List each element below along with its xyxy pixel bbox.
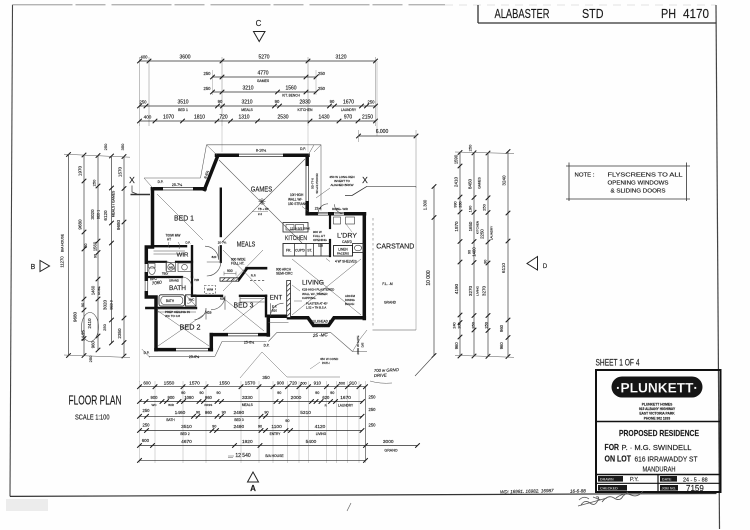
svg-text:EAST VICTORIA PARK: EAST VICTORIA PARK — [639, 412, 675, 416]
diagonal BED1 — [157, 194, 203, 240]
svg-text:C: C — [256, 19, 262, 28]
svg-text:SD+FLYDOOR: SD+FLYDOOR — [315, 173, 319, 194]
svg-text:3240: 3240 — [502, 175, 507, 186]
svg-text:L'DRY: L'DRY — [337, 232, 357, 239]
svg-text:3120: 3120 — [335, 55, 346, 61]
arrow A bottom — [248, 472, 259, 482]
svg-text:25-6¼: 25-6¼ — [189, 355, 200, 359]
bathtub — [159, 295, 185, 306]
diagonals BED2 — [158, 311, 209, 346]
svg-text:SCALE 1:100: SCALE 1:100 — [75, 413, 110, 422]
svg-text:5400: 5400 — [306, 439, 317, 445]
BED2 robe — [157, 309, 196, 312]
door arc passage/meals — [207, 262, 221, 276]
svg-text:FLOOR PLAN: FLOOR PLAN — [69, 394, 122, 408]
bottom dim row 2 — [140, 401, 363, 403]
right dim chains — [459, 153, 461, 357]
svg-text:1.300: 1.300 — [423, 199, 428, 210]
svg-text:BULKH: BULKH — [345, 302, 354, 306]
svg-text:LIVING: LIVING — [316, 432, 327, 436]
exterior wall: BED2 bottom — [156, 348, 211, 352]
svg-text:250: 250 — [143, 408, 151, 413]
svg-text:LIVING: LIVING — [476, 285, 480, 296]
svg-text:90: 90 — [330, 391, 334, 395]
svg-text:3210: 3210 — [242, 86, 253, 92]
svg-text:D.P.: D.P. — [144, 351, 150, 355]
interior wall BATH top — [146, 276, 182, 278]
svg-text:250: 250 — [88, 355, 93, 362]
svg-text:4770: 4770 — [257, 71, 268, 77]
svg-text:B/A HOUSE: B/A HOUSE — [265, 454, 284, 458]
svg-text:ALABASTER: ALABASTER — [495, 6, 550, 21]
svg-text:BULKHEAD 8′: BULKHEAD 8′ — [311, 320, 332, 324]
NB cupboard circle — [167, 263, 176, 272]
diagonals MEALS lower — [223, 250, 263, 291]
svg-text:FLYSCREENS TO ALL: FLYSCREENS TO ALL — [608, 173, 683, 179]
svg-text:1870: 1870 — [454, 221, 459, 232]
svg-text:350: 350 — [262, 375, 270, 380]
eaves outline top — [144, 145, 321, 211]
interior wall WIR right — [191, 246, 193, 277]
svg-text:GAMES: GAMES — [257, 79, 270, 83]
svg-text:BED 3: BED 3 — [234, 418, 243, 422]
door arc BATH — [182, 277, 192, 287]
svg-text:HT: HT — [167, 238, 171, 242]
svg-text:250: 250 — [482, 203, 487, 210]
svg-text:1070: 1070 — [163, 115, 174, 121]
svg-text:2000 W GATE: 2000 W GATE — [356, 335, 360, 354]
window BED2 bottom — [176, 348, 208, 352]
6.000 dim top right — [359, 135, 417, 137]
svg-text:ST.: ST. — [307, 249, 312, 253]
entry porch walls — [268, 316, 288, 335]
svg-text:90: 90 — [83, 243, 88, 248]
svg-text:KITCHEN: KITCHEN — [298, 108, 313, 112]
top dim row 1 — [140, 60, 376, 62]
svg-text:250: 250 — [369, 394, 377, 399]
svg-text:3210: 3210 — [241, 100, 252, 106]
svg-text:PASS: PASS — [205, 403, 213, 407]
exterior wall: left side — [146, 189, 156, 350]
svg-text:1550: 1550 — [219, 380, 230, 386]
svg-text:MEALS: MEALS — [242, 403, 253, 407]
svg-text:90: 90 — [218, 99, 223, 104]
svg-text:A: A — [250, 484, 256, 493]
svg-text:820: 820 — [212, 255, 217, 259]
kitchen bench top (sink) — [283, 223, 308, 233]
svg-text:90: 90 — [216, 391, 220, 395]
svg-text:5D-77-6: 5D-77-6 — [311, 178, 315, 189]
interior wall passage bottom / BED3 top — [192, 295, 222, 297]
window BED3 bottom — [228, 333, 258, 337]
svg-text:D.P.: D.P. — [264, 344, 270, 348]
svg-text:3020: 3020 — [103, 299, 108, 310]
svg-text:62B: 62B — [220, 297, 225, 301]
door arc BED1 — [205, 246, 219, 260]
svg-text:GRAND: GRAND — [384, 301, 397, 305]
svg-text:2530: 2530 — [277, 115, 288, 121]
svg-text:90: 90 — [199, 391, 203, 395]
svg-text:4120: 4120 — [315, 424, 326, 430]
bottom dim row 3 — [140, 415, 363, 417]
svg-text:BED 1: BED 1 — [178, 108, 188, 112]
porch and path lines — [268, 323, 367, 352]
svg-text:250: 250 — [204, 71, 212, 76]
svg-text:GRAND: GRAND — [169, 279, 179, 283]
svg-text:900: 900 — [168, 395, 176, 400]
svg-text:9680: 9680 — [73, 311, 78, 322]
svg-text:SEMI-CIRC: SEMI-CIRC — [276, 272, 293, 276]
svg-text:260: 260 — [459, 201, 463, 207]
svg-text:250: 250 — [103, 143, 108, 150]
svg-text:OPENING WINDOWS: OPENING WINDOWS — [608, 181, 669, 187]
bottom dim row 5 — [140, 445, 418, 447]
interior wall BED1/GAMES — [220, 189, 222, 236]
svg-text:350: 350 — [120, 143, 125, 150]
bottom dim row 4 — [140, 430, 363, 432]
svg-text:90: 90 — [484, 260, 488, 264]
svg-text:90: 90 — [330, 99, 335, 104]
svg-text:1460: 1460 — [175, 410, 186, 416]
svg-text:BED 3: BED 3 — [110, 300, 114, 309]
svg-text:250: 250 — [471, 321, 476, 328]
top dim row 2 — [213, 76, 317, 78]
svg-text:2150: 2150 — [362, 115, 373, 121]
carstand dim 10000 — [433, 187, 435, 356]
svg-text:1570: 1570 — [189, 380, 200, 386]
svg-text:2350: 2350 — [117, 328, 122, 339]
svg-text:B/A HOUSE: B/A HOUSE — [61, 233, 65, 252]
W/M dashed — [205, 286, 216, 294]
BED3 robe — [240, 296, 265, 302]
svg-text:PLUNKETT HOMES: PLUNKETT HOMES — [642, 402, 673, 406]
svg-text:TB + RP: TB + RP — [258, 207, 269, 211]
svg-text:GRANO: GRANO — [384, 448, 397, 452]
svg-text:250: 250 — [368, 100, 376, 105]
interior wall BATH right — [191, 277, 193, 296]
svg-text:JOB NO.: JOB NO. — [662, 487, 677, 491]
svg-text:CUP'D: CUP'D — [295, 249, 305, 253]
svg-text:90: 90 — [212, 424, 216, 428]
svg-text:CAPPING.: CAPPING. — [302, 296, 317, 300]
svg-text:250: 250 — [369, 407, 377, 412]
svg-text:X: X — [129, 175, 135, 185]
svg-text:2250: 2250 — [480, 229, 485, 239]
half wall ENT/LIVING (hatched) — [287, 281, 291, 318]
svg-text:1219 S/S SINK: 1219 S/S SINK — [290, 227, 310, 231]
svg-text:BATH: BATH — [166, 299, 175, 303]
exterior wall: kitchen+laundry top — [307, 212, 364, 216]
scan smudge bottom-left — [6, 499, 48, 511]
ceiling diagonals GAMES/MEALS — [219, 160, 302, 243]
door arc entry — [271, 303, 284, 316]
svg-text:9680: 9680 — [78, 219, 83, 230]
svg-text:1560: 1560 — [93, 241, 98, 251]
bottom dim row 1 — [140, 386, 366, 388]
svg-text:PACERS: PACERS — [337, 251, 349, 255]
svg-text:WIR: WIR — [177, 253, 189, 259]
svg-text:620: 620 — [322, 395, 330, 400]
svg-text:D.P.: D.P. — [185, 241, 190, 245]
svg-text:D.P.: D.P. — [300, 147, 306, 151]
svg-text:2490: 2490 — [233, 424, 244, 430]
svg-text:915 ALBANY HIGHWAY: 915 ALBANY HIGHWAY — [639, 407, 676, 411]
svg-text:910: 910 — [314, 380, 322, 385]
door arc laundry/carstand — [335, 204, 345, 214]
svg-text:BED 2: BED 2 — [180, 325, 201, 332]
door arc BED3 — [211, 296, 225, 310]
svg-text:90: 90 — [315, 391, 319, 395]
svg-text:910: 910 — [349, 380, 357, 385]
svg-text:3270: 3270 — [482, 285, 487, 296]
svg-text:1920: 1920 — [242, 439, 253, 445]
shower — [186, 295, 197, 306]
svg-text:3510: 3510 — [177, 100, 188, 106]
svg-text:2410: 2410 — [87, 318, 92, 329]
svg-text:250: 250 — [369, 423, 377, 428]
svg-text:LAUNDRY: LAUNDRY — [341, 108, 357, 112]
svg-text:CAB'D: CAB'D — [342, 240, 353, 244]
svg-text:GAMES: GAMES — [478, 177, 482, 189]
svg-text:1460: 1460 — [91, 285, 96, 295]
interior wall WIR top (BED1 bottom) — [153, 245, 187, 247]
svg-text:90: 90 — [285, 419, 289, 423]
svg-text:10 000: 10 000 — [426, 270, 432, 286]
svg-text:3600: 3600 — [179, 55, 190, 61]
svg-text:970: 970 — [344, 115, 353, 121]
svg-text:24.25: 24.25 — [81, 329, 86, 341]
svg-text:D/S: D/S — [361, 343, 365, 348]
door arc WC — [166, 262, 175, 271]
svg-text:400: 400 — [144, 115, 152, 120]
svg-text:4170: 4170 — [683, 6, 709, 21]
top dimension extension lines — [139, 57, 141, 126]
door arc BED2 — [195, 308, 207, 320]
right edge connector of bottom block — [365, 387, 367, 461]
window GAMES top — [239, 154, 283, 158]
svg-text:3510: 3510 — [181, 424, 192, 430]
top dim row 4 — [140, 105, 376, 107]
window BED1 top — [163, 187, 193, 191]
svg-text:KITCHEN: KITCHEN — [285, 235, 307, 242]
svg-text:4190: 4190 — [454, 283, 459, 294]
svg-text:MANDURAH: MANDURAH — [643, 465, 676, 474]
svg-text:2-2: 2-2 — [258, 212, 262, 216]
svg-text:960: 960 — [499, 342, 504, 350]
svg-text:2410: 2410 — [454, 176, 459, 187]
svg-text:9680: 9680 — [116, 219, 121, 230]
svg-text:200: 200 — [458, 322, 462, 328]
top dim row 5 — [140, 120, 376, 122]
svg-text:72B: 72B — [194, 278, 199, 282]
svg-text:P. · M.G. SWINDELL: P. · M.G. SWINDELL — [622, 443, 692, 452]
svg-text:1590: 1590 — [454, 154, 459, 164]
svg-text:600: 600 — [142, 438, 150, 443]
svg-text:10f HIGH: 10f HIGH — [290, 193, 304, 197]
svg-text:1810: 1810 — [194, 115, 205, 121]
svg-text:NOTE :: NOTE : — [575, 173, 595, 179]
WC toilet — [149, 264, 156, 269]
svg-text:BED 3: BED 3 — [234, 302, 254, 309]
svg-text:250: 250 — [318, 86, 326, 91]
svg-text:2830: 2830 — [299, 100, 310, 106]
title block box — [596, 370, 721, 492]
sliding door GAMES right — [305, 166, 309, 201]
svg-text:4670: 4670 — [181, 439, 192, 445]
svg-text:1670: 1670 — [343, 100, 354, 106]
svg-text:BATH: BATH — [169, 285, 186, 292]
svg-text:DRIVE: DRIVE — [374, 373, 387, 378]
svg-text:150 STRANG: 150 STRANG — [288, 202, 308, 206]
svg-text:3020: 3020 — [90, 209, 95, 220]
svg-text:P.: P. — [325, 403, 328, 407]
top dim row 3 — [213, 91, 317, 93]
svg-text:400: 400 — [141, 55, 149, 60]
window WC left — [145, 264, 149, 272]
svg-text:LIVING: LIVING — [302, 279, 324, 286]
svg-text:LAUNDRY: LAUNDRY — [490, 226, 494, 240]
svg-text:STD: STD — [582, 6, 604, 21]
interior wall BED3/ENT — [265, 296, 267, 316]
svg-text:BED 2: BED 2 — [180, 432, 189, 436]
svg-text:SHEET 1 OF 4: SHEET 1 OF 4 — [596, 358, 640, 368]
svg-text:8-10¼: 8-10¼ — [256, 149, 267, 153]
svg-text:3330: 3330 — [242, 395, 253, 401]
diagonals BED3 — [223, 298, 264, 331]
svg-text:DRAWN: DRAWN — [600, 478, 614, 482]
svg-text:7159: 7159 — [686, 484, 704, 493]
linen cupboard — [334, 246, 353, 257]
svg-text:FOR: FOR — [605, 443, 620, 452]
svg-text:250: 250 — [143, 422, 151, 427]
exterior wall: chamfer corner — [205, 157, 218, 190]
svg-text:3270: 3270 — [468, 285, 473, 296]
svg-text:90: 90 — [94, 254, 98, 258]
svg-text:DATE: DATE — [662, 478, 672, 482]
svg-text:250: 250 — [318, 71, 326, 76]
svg-text:MEALS / GAMES: MEALS / GAMES — [112, 190, 116, 217]
svg-text:ROBE+ WIR: ROBE+ WIR — [332, 207, 348, 211]
svg-text:25-7¼: 25-7¼ — [172, 183, 183, 187]
svg-text:25-6¼: 25-6¼ — [244, 341, 255, 345]
svg-text:960: 960 — [499, 324, 504, 332]
svg-text:900: 900 — [277, 380, 285, 385]
light point GAMES — [259, 198, 266, 205]
svg-text:250: 250 — [140, 100, 148, 105]
svg-text:90: 90 — [80, 302, 85, 307]
svg-text:90: 90 — [222, 410, 226, 414]
svg-text:B: B — [31, 264, 36, 271]
svg-text:960: 960 — [454, 342, 459, 350]
svg-text:1970: 1970 — [78, 165, 83, 176]
svg-text:NB: NB — [169, 266, 173, 270]
exterior wall: house right — [363, 214, 367, 319]
svg-text:20-7¼: 20-7¼ — [218, 241, 227, 245]
svg-text:& SLIDING DOORS: & SLIDING DOORS — [611, 189, 666, 195]
svg-text:250: 250 — [484, 321, 489, 328]
svg-text:90: 90 — [264, 410, 268, 414]
svg-text:ENT: ENT — [270, 294, 283, 301]
svg-text:7 90 A: 7 90 A — [315, 324, 325, 328]
door arc kitchen/carstand — [318, 204, 328, 214]
jog wall BED3/BED2 — [210, 335, 214, 350]
svg-text:90: 90 — [196, 410, 200, 414]
interior wall WC row — [146, 261, 166, 263]
svg-text:600: 600 — [300, 381, 306, 385]
svg-text:1100: 1100 — [271, 424, 282, 430]
carstand boundary — [367, 185, 416, 187]
svg-text:720: 720 — [290, 380, 298, 385]
diagonals LIVING — [292, 259, 361, 315]
hot water unit near laundry — [346, 217, 355, 224]
svg-text:FR.: FR. — [286, 249, 292, 253]
PLUNKETT logo — [612, 377, 703, 398]
svg-text:CHECKED: CHECKED — [600, 487, 618, 491]
svg-text:LAUNDRY: LAUNDRY — [338, 403, 354, 407]
svg-text:190: 190 — [468, 205, 473, 212]
svg-text:GAMES: GAMES — [251, 185, 273, 194]
svg-text:4 W′ SHELVES: 4 W′ SHELVES — [335, 260, 357, 264]
svg-text:6.000: 6.000 — [376, 129, 389, 135]
svg-text:90: 90 — [275, 99, 280, 104]
interior wall BATH bottom / BED2 top — [146, 307, 196, 309]
meals step wall + arch — [239, 269, 248, 281]
arrow D right — [527, 257, 538, 271]
svg-text:1310: 1310 — [238, 115, 249, 121]
svg-text:1080: 1080 — [184, 395, 194, 400]
svg-text:WC: WC — [152, 403, 158, 407]
svg-text:5270: 5270 — [258, 55, 269, 61]
svg-text:ENTRY: ENTRY — [270, 432, 282, 436]
svg-text:600: 600 — [339, 381, 345, 385]
bottom dim row 6 — [140, 459, 366, 461]
exterior wall: BED3 bottom — [211, 333, 268, 337]
svg-text:240: 240 — [453, 322, 457, 328]
exterior wall: living bottom with bay — [289, 318, 365, 326]
left dim chains — [68, 155, 70, 356]
svg-text:250: 250 — [92, 179, 97, 186]
svg-text:990: 990 — [454, 201, 458, 207]
svg-text:616 IRRAWADDY ST: 616 IRRAWADDY ST — [635, 454, 698, 463]
svg-text:6110: 6110 — [501, 263, 506, 273]
svg-text:8450: 8450 — [468, 178, 473, 189]
svg-text:90: 90 — [258, 424, 262, 428]
svg-text:MEALS: MEALS — [241, 108, 253, 112]
bottom dim extension lines — [139, 381, 141, 463]
svg-text:24 - 5 - 88: 24 - 5 - 88 — [683, 477, 708, 483]
svg-text:P.Y.: P.Y. — [630, 477, 639, 483]
svg-text:11270: 11270 — [60, 256, 65, 268]
page border frame — [10, 5, 13, 497]
svg-text:16-6-88: 16-6-88 — [570, 488, 586, 493]
svg-text:960: 960 — [205, 410, 213, 415]
svg-text:25 -MC: 25 -MC — [312, 332, 329, 338]
exterior wall: GAMES right — [305, 155, 309, 214]
svg-text:D: D — [543, 264, 548, 270]
svg-text:52B: 52B — [318, 244, 323, 248]
svg-text:SHC: SHC — [189, 298, 195, 302]
svg-text:5310: 5310 — [300, 410, 311, 416]
svg-text:FULL HT.: FULL HT. — [231, 262, 244, 266]
svg-text:MEALS: MEALS — [237, 241, 256, 248]
svg-text:960: 960 — [205, 395, 213, 400]
note box — [566, 163, 690, 202]
svg-text:1400: 1400 — [472, 247, 477, 257]
svg-text:PROPOSED RESIDENCE: PROPOSED RESIDENCE — [619, 428, 699, 438]
svg-text:BED 1: BED 1 — [174, 216, 194, 223]
svg-text:820: 820 — [272, 309, 277, 313]
svg-text:BED 1: BED 1 — [97, 210, 101, 219]
